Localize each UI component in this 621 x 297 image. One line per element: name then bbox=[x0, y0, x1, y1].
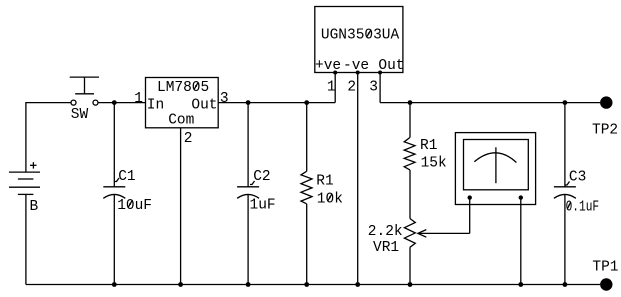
svg-text:10uF: 10uF bbox=[117, 198, 152, 214]
wire UGN pin3 Out down bbox=[379, 73, 381, 103]
junction C1 bottom bbox=[112, 282, 117, 287]
svg-text:Out: Out bbox=[378, 58, 404, 74]
svg-text:0.1uF: 0.1uF bbox=[566, 199, 600, 215]
capacitor C3 bbox=[554, 187, 576, 199]
svg-text:Out: Out bbox=[191, 97, 217, 113]
wire R1 15k to VR1 bbox=[409, 170, 411, 219]
svg-text:TP1: TP1 bbox=[592, 260, 618, 276]
wire R1 15k top bbox=[409, 103, 411, 138]
svg-text:R1: R1 bbox=[420, 138, 437, 154]
wire switch to LM7805 In bbox=[98, 102, 146, 104]
battery plus sign bbox=[30, 162, 37, 169]
junction UGN pin2 bottom bbox=[355, 282, 360, 287]
svg-text:B: B bbox=[30, 199, 39, 215]
wire C1 bottom bbox=[113, 194, 115, 285]
wire C3 bottom bbox=[564, 194, 566, 285]
svg-text:15k: 15k bbox=[421, 156, 447, 172]
wire UGN pin1 to +5V rail bbox=[334, 73, 336, 103]
svg-text:1: 1 bbox=[134, 91, 143, 107]
resistor R1 15k bbox=[404, 138, 415, 170]
junction C2 bottom bbox=[246, 282, 251, 287]
meter right terminal bbox=[519, 195, 523, 199]
meter M bbox=[455, 133, 535, 205]
svg-text:LM7805: LM7805 bbox=[157, 80, 209, 96]
svg-text:2: 2 bbox=[347, 79, 356, 95]
junction R1 10k top bbox=[304, 100, 309, 105]
label C1 tick bbox=[115, 178, 120, 182]
svg-text:2.2k: 2.2k bbox=[368, 224, 403, 240]
wire wiper to meter left terminal bbox=[469, 198, 471, 234]
svg-text:VR1: VR1 bbox=[373, 240, 399, 256]
junction C3 top bbox=[563, 100, 568, 105]
wire LM7805 Com pin 2 to bottom rail bbox=[180, 128, 182, 285]
wire Out rail to TP2 bbox=[380, 102, 600, 104]
slashed zero in 10k bbox=[328, 194, 332, 201]
wire C1 branch top bbox=[113, 103, 115, 187]
switch SW bbox=[70, 77, 99, 105]
slashed zero in 0.1uF bbox=[568, 202, 571, 209]
svg-text:In: In bbox=[147, 98, 164, 114]
label C3 tick bbox=[565, 182, 570, 186]
svg-text:R1: R1 bbox=[316, 174, 333, 190]
meter left terminal bbox=[468, 195, 472, 199]
junction R1 10k bottom bbox=[304, 282, 309, 287]
wire VR1 bottom bbox=[409, 247, 411, 284]
junction VR1 bottom bbox=[408, 282, 413, 287]
VR1 wiper arrow bbox=[418, 230, 470, 238]
slashed zero in UGN3503UA bbox=[367, 30, 371, 37]
junction pin2 bottom bbox=[178, 282, 183, 287]
capacitor C2 bbox=[237, 187, 259, 199]
svg-text:3: 3 bbox=[369, 79, 378, 95]
resistor R1 10k bbox=[301, 171, 312, 204]
label C2 tick bbox=[250, 181, 255, 185]
junction C2 top bbox=[246, 100, 251, 105]
wire C2 branch top bbox=[247, 103, 249, 187]
test point TP1 bbox=[600, 278, 612, 290]
test point TP2 bbox=[600, 96, 612, 108]
junction C1 top bbox=[112, 100, 117, 105]
wire battery negative to bottom rail bbox=[25, 194, 27, 284]
slashed zero in LM7805 bbox=[194, 83, 198, 90]
wire R1 10k top bbox=[306, 103, 308, 172]
svg-text:Com: Com bbox=[168, 113, 194, 129]
pin 3 dot UGN bbox=[378, 71, 382, 75]
wire LM7805 Out rail to UGN pin1 bbox=[218, 102, 335, 104]
wire battery positive up to top rail corner bbox=[26, 103, 71, 173]
svg-text:UGN3503UA: UGN3503UA bbox=[321, 28, 400, 44]
svg-text:C1: C1 bbox=[118, 169, 135, 185]
pin 1 dot UGN bbox=[333, 71, 337, 75]
svg-text:SW: SW bbox=[71, 107, 89, 123]
svg-text:+ve: +ve bbox=[315, 58, 341, 74]
wire C2 bottom bbox=[247, 194, 249, 285]
wire meter right terminal to bottom rail bbox=[520, 198, 522, 285]
bottom rail wire bbox=[26, 284, 600, 286]
svg-text:1uF: 1uF bbox=[250, 198, 276, 214]
svg-text:C3: C3 bbox=[569, 169, 586, 185]
svg-text:2: 2 bbox=[184, 131, 193, 147]
wire UGN pin2 to bottom rail bbox=[357, 73, 359, 285]
regulator LM7805 bbox=[146, 78, 219, 129]
wire C3 branch top bbox=[564, 103, 566, 187]
capacitor C1 bbox=[103, 187, 125, 199]
sensor UGN3503UA bbox=[315, 7, 405, 74]
junction meter right bottom bbox=[518, 282, 523, 287]
junction C3 bottom bbox=[563, 282, 568, 287]
wire R1 10k bottom bbox=[306, 204, 308, 285]
junction R1 15k top bbox=[408, 100, 413, 105]
slashed zero in 10uF bbox=[128, 201, 132, 208]
pin 2 dot UGN bbox=[356, 71, 360, 75]
svg-text:TP2: TP2 bbox=[592, 123, 618, 139]
svg-text:1: 1 bbox=[327, 79, 336, 95]
svg-text:C2: C2 bbox=[253, 169, 270, 185]
potentiometer VR1 bbox=[404, 219, 415, 248]
svg-text:3: 3 bbox=[220, 91, 229, 107]
battery B bbox=[9, 172, 40, 194]
svg-text:10k: 10k bbox=[317, 191, 343, 207]
